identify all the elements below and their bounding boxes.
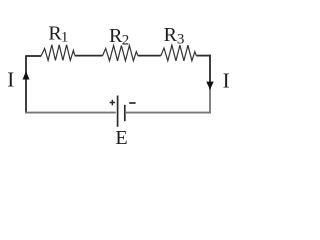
svg-text:3: 3 [177,32,185,48]
wire: left vertical [25,55,27,113]
wire: between R1 and R2 [75,55,103,57]
svg-text:2: 2 [122,33,130,49]
svg-text:R: R [164,24,178,46]
battery minus sign [129,102,135,104]
current arrow down on right wire [206,82,213,90]
resistor R1 [41,45,74,61]
wire: bottom left horizontal (gray) [25,112,116,114]
wire: top right horizontal stub [196,55,211,57]
svg-text:1: 1 [61,29,69,45]
svg-text:I: I [7,67,14,91]
battery E: long positive plate [117,96,119,127]
svg-text:E: E [115,127,127,149]
wire: between R2 and R3 [138,55,161,57]
battery E: short negative plate [124,105,126,121]
battery plus sign [110,100,116,106]
wire: bottom right horizontal (gray) [126,112,211,114]
current arrow up on left wire [23,71,30,79]
svg-text:I: I [223,68,230,92]
resistor R3 [161,45,196,61]
wire: right vertical lower (gray) [209,89,211,113]
wire: right vertical upper (black) [209,55,211,90]
resistor R2 [103,46,138,61]
wire: top left horizontal stub [26,55,41,57]
